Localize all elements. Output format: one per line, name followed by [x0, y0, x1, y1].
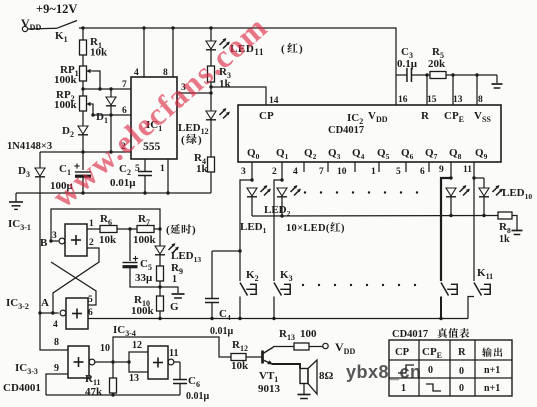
label RP1 value: [54, 74, 78, 86]
label D3: [18, 165, 30, 179]
svg-text:R: R: [458, 347, 466, 358]
wire R3-j: [210, 82, 212, 93]
svg-text:100k: 100k: [131, 305, 155, 317]
label IC1: [146, 119, 162, 133]
table r1 0b: [459, 366, 464, 377]
wire LED11 top: [210, 28, 212, 41]
node pin3-j2: [209, 91, 212, 94]
node pin6-a: [91, 113, 94, 116]
svg-text:0.01μ: 0.01μ: [210, 326, 234, 337]
wire pin13: [452, 75, 454, 105]
diode D3: [35, 152, 45, 313]
label D1: [96, 111, 108, 125]
svg-text:1: 1: [160, 164, 165, 174]
svg-text:CD4001: CD4001: [3, 382, 41, 394]
wire RP1-RP2: [82, 81, 84, 96]
label CD4001: [3, 382, 41, 394]
label Q9: [475, 147, 488, 161]
label LED11: [230, 43, 303, 57]
speaker 8ohm: [300, 360, 317, 394]
terminal VDD2: [323, 343, 328, 348]
label IC3-2: [6, 297, 29, 311]
IC IC2 CD4017: [238, 105, 501, 162]
svg-text:15: 15: [427, 95, 437, 105]
wire stub x379: [378, 162, 380, 172]
wire to pin14: [211, 87, 266, 105]
wire pin3: [177, 92, 211, 94]
svg-text:CPE: CPE: [422, 346, 442, 360]
label C2: [119, 163, 131, 177]
label 10xLED: [286, 222, 345, 234]
node rail-LED11: [209, 26, 212, 29]
svg-text:4: 4: [53, 320, 58, 330]
wire C4 top link: [212, 250, 240, 252]
wire R4 bottom: [210, 172, 212, 193]
label pin14: [269, 96, 279, 106]
wire K11 bottom: [468, 297, 474, 319]
label RP2 value: [54, 99, 78, 111]
label pin5: [135, 164, 140, 174]
wire K2 bottom: [239, 297, 241, 319]
svg-text:Q7: Q7: [425, 147, 438, 161]
svg-text:K3: K3: [280, 269, 293, 283]
svg-text:Q0: Q0: [247, 147, 260, 161]
svg-text:11: 11: [169, 348, 178, 359]
wire R7 right: [154, 228, 160, 230]
table frame: [389, 340, 512, 396]
label pin3b: [241, 167, 246, 177]
svg-text:3: 3: [52, 231, 57, 241]
svg-text:100k: 100k: [54, 99, 78, 111]
label Q0: [247, 147, 260, 161]
label table title: [392, 328, 469, 340]
label IC3-1: [8, 218, 31, 232]
label 8ohm: [319, 370, 334, 382]
label g1 pin3: [52, 231, 57, 241]
label Q5: [377, 147, 390, 161]
svg-text:1k: 1k: [196, 163, 209, 175]
table r1 0a: [428, 365, 433, 376]
wire pin16: [395, 75, 397, 105]
node delay: [158, 227, 161, 230]
label pin7b: [319, 167, 324, 177]
node K2-C4: [238, 249, 241, 252]
svg-text:R7: R7: [138, 213, 150, 227]
svg-text:VDD: VDD: [368, 110, 388, 124]
svg-text:R6: R6: [100, 213, 112, 227]
label g1 pin1: [89, 219, 94, 229]
LED LED9: [446, 185, 470, 215]
svg-text:10: 10: [337, 167, 347, 177]
svg-text:20k: 20k: [428, 58, 446, 70]
label pin9b: [439, 165, 444, 175]
svg-text:7: 7: [319, 167, 324, 177]
resistor R5: [430, 72, 446, 79]
wire collector: [263, 347, 294, 354]
node A diag: [51, 311, 54, 314]
LED LED11: [206, 38, 230, 50]
label pin4: [134, 68, 139, 78]
ground left: [9, 202, 23, 209]
svg-text:1N4148×3: 1N4148×3: [7, 141, 52, 152]
transistor VT1 9013: [261, 351, 264, 364]
switch K2: [240, 283, 256, 296]
node bus K3: [272, 317, 275, 320]
svg-text:6: 6: [88, 308, 93, 318]
svg-text:D3: D3: [18, 165, 30, 179]
label pin8c: [478, 95, 483, 105]
ground top right: [492, 75, 503, 88]
node rail-pin4: [142, 26, 145, 29]
table r2 0: [459, 383, 464, 394]
wire pin2 stub: [281, 162, 283, 180]
wire emitter: [263, 360, 300, 369]
svg-text:13: 13: [453, 95, 463, 105]
label C4: [219, 308, 231, 322]
svg-text:1: 1: [371, 167, 376, 177]
watermark red: [45, 8, 275, 214]
ground G: [172, 294, 185, 298]
wire pin4: [143, 28, 145, 77]
wire g1 pin2 cross: [53, 248, 99, 313]
wire A out: [40, 312, 59, 314]
svg-text:9: 9: [54, 363, 59, 374]
table edge down: [426, 384, 441, 391]
wire stub x304: [303, 162, 305, 172]
wire LED11-R3: [210, 50, 212, 66]
node pin2 split: [280, 178, 283, 181]
label C5: [140, 258, 152, 272]
wire key bus: [88, 318, 468, 320]
svg-text:Q5: Q5: [377, 147, 390, 161]
label g4 pin12: [132, 340, 142, 351]
table out: [482, 347, 502, 357]
wire ground rail: [16, 193, 211, 202]
terminal VDD: [22, 26, 27, 31]
wire pins6-2 tie: [110, 115, 112, 152]
wire pin9 stub: [450, 162, 452, 178]
svg-text:G: G: [170, 301, 179, 313]
label 1N4148: [7, 141, 52, 152]
svg-text:10k: 10k: [90, 47, 108, 59]
svg-text:5: 5: [88, 295, 93, 305]
wire pin11 stub: [473, 162, 475, 178]
svg-text:6: 6: [420, 167, 425, 177]
svg-text:2: 2: [272, 167, 277, 177]
potentiometer RP2: [80, 96, 87, 111]
label K3: [280, 269, 293, 283]
label pin8: [163, 68, 168, 78]
LED LED12: [206, 93, 230, 120]
wire stub x328: [327, 162, 329, 172]
label RP2: [56, 89, 75, 103]
resistor R6: [100, 226, 117, 233]
node pin7-b: [98, 87, 101, 90]
label K11: [477, 267, 493, 281]
svg-text:C5: C5: [140, 258, 152, 272]
svg-text:100: 100: [300, 328, 317, 340]
label R12 value: [231, 360, 249, 372]
svg-text:3: 3: [241, 167, 246, 177]
label g2 pin6: [88, 308, 93, 318]
wire osc out-over: [113, 337, 231, 362]
node pin3-j1: [209, 85, 212, 88]
node bus K2: [238, 317, 241, 320]
label IC3-4 wire: [113, 324, 136, 338]
wire pin1: [167, 159, 169, 193]
capacitor C2: [138, 159, 152, 193]
wire pin6 row: [93, 114, 131, 116]
capacitor C1: [74, 152, 91, 193]
node bus LED10: [482, 214, 485, 217]
svg-text:Q6: Q6: [401, 147, 414, 161]
label R3 value: [219, 78, 232, 90]
wire R9-R10: [159, 281, 161, 296]
label R pin: [421, 110, 430, 122]
svg-text:5: 5: [396, 167, 401, 177]
table r2 n1: [484, 383, 500, 394]
label R7 value: [133, 234, 157, 246]
label R12: [232, 339, 248, 353]
label pin16: [398, 95, 408, 105]
label pin1b: [371, 167, 376, 177]
wiper RP2: [87, 102, 94, 115]
node gnd-C1: [81, 191, 84, 194]
wire g3 out: [95, 361, 129, 363]
svg-text:0.1μ: 0.1μ: [397, 58, 418, 70]
svg-text:1k: 1k: [499, 234, 510, 245]
label Q8: [449, 147, 462, 161]
svg-text:4: 4: [293, 167, 298, 177]
label Q4: [352, 147, 365, 161]
svg-text:IC3-3: IC3-3: [15, 362, 38, 376]
node pin3 split: [250, 178, 253, 181]
label R4: [194, 152, 206, 166]
wire R12-base: [246, 356, 262, 358]
label R8: [499, 221, 511, 235]
dots key ellipsis: [302, 284, 416, 286]
wire LED12-R4: [210, 120, 212, 157]
wire A down pin8: [40, 313, 68, 350]
label K1: [55, 30, 68, 44]
label R10 value: [131, 305, 155, 317]
label g4 pin11: [169, 348, 178, 359]
svg-text:16: 16: [398, 95, 408, 105]
gate IC3-3: [68, 346, 95, 378]
node D1 top: [109, 87, 112, 90]
wire K3 jog: [274, 180, 282, 281]
label C6 value: [186, 391, 210, 402]
node pin15: [425, 73, 428, 76]
svg-text:8: 8: [478, 95, 483, 105]
svg-text:D2: D2: [62, 125, 74, 139]
svg-text:Q3: Q3: [328, 147, 341, 161]
resistor R12: [231, 354, 246, 361]
svg-text:10k: 10k: [99, 234, 117, 246]
wire 12-13 loop: [129, 352, 148, 372]
LED LED1: [247, 185, 271, 216]
resistor R7: [137, 226, 154, 233]
svg-text:33μ: 33μ: [135, 272, 153, 284]
svg-text:9013: 9013: [258, 383, 281, 395]
resistor R3: [208, 66, 215, 82]
wire K10 jog: [441, 178, 451, 281]
node pin9 split: [449, 176, 452, 179]
wire g2 pin5 cross: [51, 262, 96, 305]
label pin5b: [396, 167, 401, 177]
svg-text:47k: 47k: [85, 386, 103, 398]
wire spk gnd: [303, 384, 305, 395]
wire R1 top: [82, 28, 84, 40]
resistor R1: [80, 40, 87, 55]
label g3 pin9: [54, 363, 59, 374]
svg-text:Q8: Q8: [449, 147, 462, 161]
wire g3 pin9: [46, 374, 68, 395]
label R11 value: [85, 386, 103, 398]
label pin7: [122, 80, 127, 90]
label R6: [100, 213, 112, 227]
node R11 bottom: [111, 393, 114, 396]
svg-text:CP: CP: [259, 110, 274, 122]
svg-text:Q2: Q2: [304, 147, 317, 161]
label delay: [166, 224, 196, 236]
svg-text:2: 2: [89, 238, 94, 248]
resistor R8: [498, 212, 512, 219]
svg-text:n+1: n+1: [484, 365, 500, 376]
label g2 pin5: [88, 295, 93, 305]
label g4 pin13: [129, 373, 139, 384]
switch K11: [474, 283, 490, 296]
svg-text:R13: R13: [279, 328, 295, 342]
node pin8b: [475, 73, 478, 76]
svg-text:8: 8: [163, 68, 168, 78]
label g2 A: [41, 297, 49, 309]
switch K1: [28, 21, 77, 30]
label 9013: [258, 383, 281, 395]
IC IC1 555 timer: [131, 77, 177, 159]
wire K3 bottom: [273, 297, 275, 319]
label IC3-3: [15, 362, 38, 376]
svg-text:K2: K2: [246, 269, 259, 283]
label LED10: [502, 187, 532, 201]
svg-text:R: R: [421, 110, 430, 122]
node pin2-a: [81, 150, 84, 153]
node C5 top: [128, 227, 131, 230]
label C1 value: [50, 180, 74, 192]
label pin6b: [420, 167, 425, 177]
svg-text:IC3-2: IC3-2: [6, 297, 29, 311]
wire pin2 row: [40, 151, 131, 153]
wire pin7 row: [83, 88, 131, 90]
svg-text:Q1: Q1: [276, 147, 289, 161]
gate IC3-4: [148, 346, 174, 379]
svg-text:6: 6: [122, 106, 127, 116]
node bus C4: [210, 317, 213, 320]
wire feedback rail: [46, 394, 180, 396]
svg-text:CP: CP: [395, 347, 410, 358]
label R13: [279, 328, 317, 342]
svg-text:9: 9: [439, 165, 444, 175]
wire pin16 net: [396, 74, 494, 76]
table R: [458, 347, 466, 358]
label D2: [62, 125, 74, 139]
svg-text:0: 0: [428, 365, 433, 376]
wire stub x406: [405, 162, 407, 172]
label C1: [59, 163, 71, 177]
wire RP2-D2: [82, 111, 84, 126]
svg-text:Q4: Q4: [352, 147, 365, 161]
wire R8 gnd: [512, 216, 517, 231]
svg-text:K1: K1: [55, 30, 68, 44]
wire R6-R7: [117, 228, 137, 230]
node pin7-a: [81, 87, 84, 90]
svg-text:4: 4: [134, 68, 139, 78]
wire pin8 4017: [476, 75, 478, 105]
gate IC3-1: [59, 224, 87, 256]
svg-text:13: 13: [129, 373, 139, 384]
label g2 pin4: [53, 320, 58, 330]
wire K2 jog: [240, 180, 252, 281]
switch K3: [274, 283, 290, 296]
svg-text:IC2: IC2: [347, 112, 363, 126]
label Q6: [401, 147, 414, 161]
label R1: [90, 36, 102, 50]
svg-text:VT1: VT1: [259, 370, 278, 384]
svg-text:A: A: [41, 297, 49, 309]
node bus R10: [158, 317, 161, 320]
svg-text:): ): [192, 224, 196, 236]
svg-text:8: 8: [54, 337, 59, 348]
label C6: [188, 375, 200, 389]
LED LED2: [277, 185, 301, 216]
svg-text:R12: R12: [232, 339, 248, 353]
svg-text:0.01μ: 0.01μ: [186, 391, 210, 402]
svg-text:): ): [299, 43, 303, 55]
label g3 pin10: [100, 343, 110, 354]
label pin13: [453, 95, 463, 105]
wire LED bus: [252, 215, 498, 218]
node rail-pin8: [171, 26, 174, 29]
svg-text:D1: D1: [96, 111, 108, 125]
wire B up-over: [51, 209, 160, 241]
wiper RP1: [87, 69, 101, 89]
label G: [170, 301, 179, 313]
label VDD2: [368, 110, 388, 124]
potentiometer RP1: [80, 66, 87, 81]
svg-text:): ): [198, 134, 202, 146]
label CP: [259, 110, 274, 122]
label C5 value: [135, 272, 153, 284]
label C3 value: [397, 58, 418, 70]
table r1 n1: [484, 365, 500, 376]
diode D2: [78, 126, 88, 152]
svg-text:100k: 100k: [54, 74, 78, 86]
resistor R4: [208, 157, 215, 172]
node B: [49, 239, 52, 242]
svg-text:CPE: CPE: [444, 110, 464, 124]
wire K11 line: [473, 178, 475, 281]
label R3: [219, 66, 231, 80]
node loop: [127, 360, 130, 363]
node D1 bottom: [109, 113, 112, 116]
label 555: [143, 141, 161, 153]
svg-text:10k: 10k: [231, 360, 249, 372]
wire K10 bottom: [440, 297, 442, 319]
label g3 pin8: [54, 337, 59, 348]
label CPE: [444, 110, 464, 124]
label Q1: [276, 147, 289, 161]
table edge up: [398, 365, 414, 373]
